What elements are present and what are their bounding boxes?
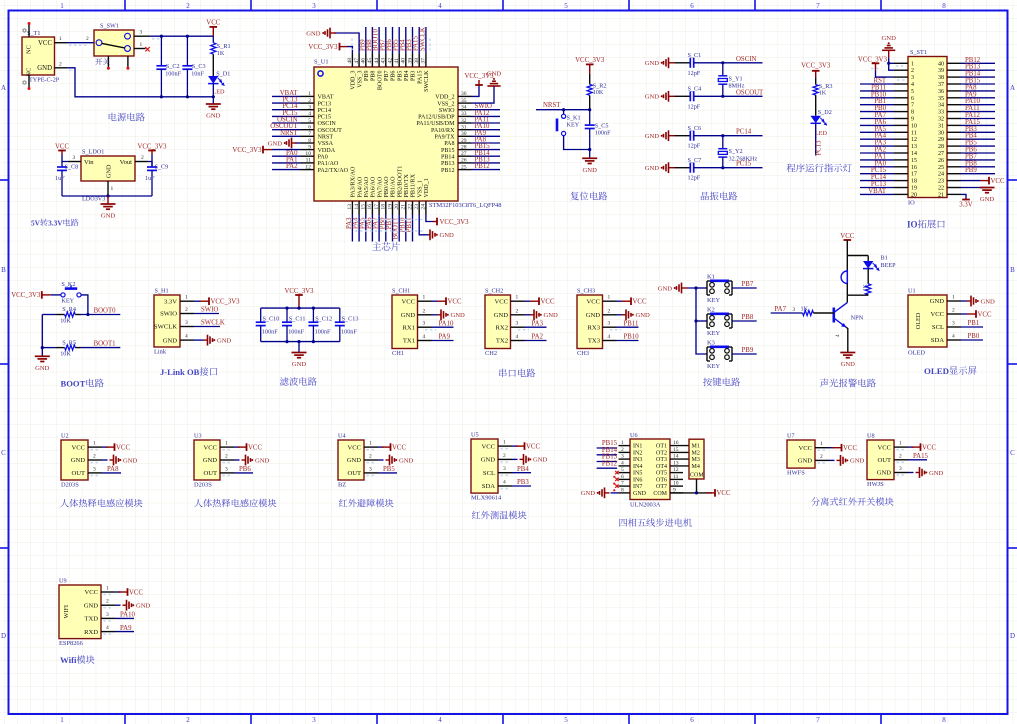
svg-text:7: 7 <box>911 103 914 109</box>
pin U3 3 <box>220 472 234 474</box>
svg-text:38: 38 <box>414 58 420 64</box>
svg-text:S_U1: S_U1 <box>314 59 329 66</box>
svg-text:GND: GND <box>798 458 813 465</box>
svg-text:VCC: VCC <box>401 298 415 305</box>
pin U9 1 <box>101 591 115 593</box>
ground LDO <box>107 196 109 204</box>
svg-text:SWIO: SWIO <box>201 307 218 314</box>
ground U5 <box>512 458 518 460</box>
wire ST1 pin 31 <box>961 124 995 126</box>
svg-text:1: 1 <box>60 716 64 724</box>
wire ST1 pin 34 <box>961 104 995 106</box>
wire U1 pin 22 <box>412 215 414 242</box>
svg-text:1: 1 <box>911 61 914 67</box>
wire ST1 pin 17 <box>860 173 894 175</box>
svg-text:VCC: VCC <box>206 20 220 27</box>
wire filter bottom rail <box>261 341 340 343</box>
svg-text:2: 2 <box>186 2 190 10</box>
svg-text:16: 16 <box>911 165 917 171</box>
svg-text:S_C12: S_C12 <box>315 316 332 323</box>
pin U8 2 <box>894 459 908 461</box>
svg-text:16: 16 <box>673 440 679 446</box>
svg-text:TYPE-C-2P: TYPE-C-2P <box>29 77 60 84</box>
svg-text:100nF: 100nF <box>165 71 181 78</box>
svg-text:VSS_2: VSS_2 <box>437 101 454 107</box>
pin H1 2 <box>180 313 194 315</box>
svg-text:D: D <box>1010 632 1015 640</box>
svg-text:PB6: PB6 <box>239 466 251 473</box>
svg-text:ULN2003A: ULN2003A <box>630 502 661 509</box>
svg-text:IN3: IN3 <box>633 457 642 463</box>
svg-text:2: 2 <box>86 36 89 42</box>
svg-text:PB7: PB7 <box>384 71 390 82</box>
wire ST1 pin 40 <box>961 62 995 64</box>
svg-text:43: 43 <box>381 58 387 64</box>
svg-text:2: 2 <box>225 454 228 460</box>
svg-text:OUT: OUT <box>347 470 361 477</box>
wire U1 pin 6 <box>272 129 301 131</box>
svg-text:1: 1 <box>59 36 62 42</box>
svg-text:U7: U7 <box>787 433 795 440</box>
LED alarm <box>867 256 869 262</box>
wire U5 PB3 <box>512 485 531 487</box>
svg-text:S_C9: S_C9 <box>155 164 169 171</box>
svg-text:VCC: VCC <box>877 444 891 451</box>
svg-text:TX2: TX2 <box>496 338 508 345</box>
svg-text:GND: GND <box>581 490 596 497</box>
svg-text:U6: U6 <box>630 432 638 439</box>
svg-text:VCC: VCC <box>448 299 462 306</box>
svg-text:GND: GND <box>487 71 502 78</box>
svg-text:C: C <box>1 449 6 457</box>
svg-text:GND: GND <box>123 457 138 464</box>
pin LDO 2 right <box>135 161 148 163</box>
wire U1 pin 15 <box>365 215 367 242</box>
power port VCC_3V3 LDO output <box>148 150 156 152</box>
power port VCC U3 <box>234 446 240 448</box>
wire K3 to net <box>732 353 757 355</box>
resistor alarm <box>867 269 869 284</box>
U1 right pin stubs and numbers <box>458 96 472 169</box>
svg-text:LED: LED <box>815 130 828 137</box>
svg-text:28: 28 <box>461 144 467 150</box>
wire U1 pin 11 <box>272 162 301 164</box>
SW1 contacts <box>96 40 102 46</box>
svg-text:OSCIN: OSCIN <box>318 121 337 127</box>
power port VCC_3V3 boot <box>41 291 43 299</box>
pin T1 bottom NC <box>28 75 30 88</box>
wire keys ground bus <box>688 288 708 354</box>
ground U4 <box>378 459 384 461</box>
svg-text:VCC: VCC <box>55 143 69 150</box>
svg-text:S_C7: S_C7 <box>688 157 702 164</box>
svg-text:GND: GND <box>841 361 856 368</box>
svg-text:PB11: PB11 <box>624 320 639 327</box>
ground U8 <box>908 472 914 474</box>
svg-text:KEY: KEY <box>61 298 74 305</box>
svg-text:Wifi: Wifi <box>60 655 77 665</box>
svg-text:SWIO: SWIO <box>439 108 455 114</box>
svg-text:41: 41 <box>394 58 400 64</box>
svg-text:PB0: PB0 <box>968 333 980 340</box>
pin U2 2 <box>88 459 102 461</box>
ground filter <box>292 352 307 354</box>
svg-text:+: + <box>841 273 844 278</box>
svg-text:VDD_3: VDD_3 <box>351 71 357 90</box>
svg-text:PB12: PB12 <box>602 460 618 467</box>
svg-text:VCC: VCC <box>38 40 52 47</box>
svg-text:GND: GND <box>255 457 270 464</box>
svg-text:VSS_3: VSS_3 <box>357 71 363 88</box>
wire OLED SCL <box>961 326 983 328</box>
ground boot <box>35 355 50 357</box>
svg-text:VCC: VCC <box>526 443 540 450</box>
label SW1 开关 <box>95 58 109 65</box>
wire ST1 pin 9 <box>860 118 894 120</box>
svg-text:GND: GND <box>544 312 559 319</box>
svg-text:SWCLK: SWCLK <box>424 70 430 92</box>
svg-text:4: 4 <box>516 334 519 340</box>
svg-text:S_CH2: S_CH2 <box>485 288 503 295</box>
svg-text:100nF: 100nF <box>341 328 357 335</box>
svg-text:RX2: RX2 <box>496 324 508 331</box>
power port VCC OLED <box>961 313 967 315</box>
svg-text:PB5: PB5 <box>397 71 403 82</box>
U1 pin names <box>318 70 456 198</box>
svg-text:SWIO: SWIO <box>160 311 177 318</box>
svg-text:VCC: VCC <box>203 444 217 451</box>
pin H1 3 <box>180 326 194 328</box>
wire U9 PA10 <box>115 617 134 619</box>
svg-text:PA3: PA3 <box>532 320 544 327</box>
svg-text:IN5: IN5 <box>633 471 642 477</box>
svg-text:S_R5: S_R5 <box>62 339 76 346</box>
svg-text:KEY: KEY <box>707 297 721 304</box>
wire U1 pin 34 <box>472 109 501 111</box>
svg-text:19: 19 <box>911 186 917 192</box>
wire U1 pin 30 <box>472 135 501 137</box>
U6 pin names <box>633 444 668 497</box>
svg-text:40: 40 <box>938 61 944 67</box>
pin U4 1 <box>364 446 378 448</box>
svg-text:OSCOUT: OSCOUT <box>318 128 343 134</box>
svg-text:34: 34 <box>938 103 944 109</box>
wire ST1 pin 18 <box>860 180 894 182</box>
wire U1 pin 3 <box>272 109 301 111</box>
key S_K1 <box>562 114 566 118</box>
resistor S_R2 10K <box>589 74 591 84</box>
wire ST1 pin 7 <box>860 104 894 106</box>
pin SW1 1 right NC <box>134 48 146 50</box>
wire U1 pin 17 <box>378 215 380 242</box>
svg-text:36: 36 <box>938 89 944 95</box>
svg-text:PA6/AO: PA6/AO <box>371 176 377 197</box>
svg-text:S_D2: S_D2 <box>818 109 832 116</box>
svg-text:2: 2 <box>308 98 311 104</box>
svg-text:KEY: KEY <box>707 363 721 370</box>
svg-text:VCC_3V3: VCC_3V3 <box>858 56 888 63</box>
svg-text:PA5/AO: PA5/AO <box>364 176 370 197</box>
wire ST1 pin 28 <box>961 145 995 147</box>
svg-text:PA15: PA15 <box>913 453 928 460</box>
svg-text:2: 2 <box>516 308 519 314</box>
wire U1 pin 2 <box>272 102 301 104</box>
key K3 <box>706 347 708 361</box>
svg-text:10K: 10K <box>60 317 71 324</box>
svg-text:PC15: PC15 <box>318 115 332 121</box>
svg-text:VCC_3V3: VCC_3V3 <box>284 288 314 295</box>
svg-text:PB13: PB13 <box>441 161 455 167</box>
MCU S_U1 STM32F103C8T6 <box>314 67 458 201</box>
svg-text:LED: LED <box>213 89 226 96</box>
svg-text:K2: K2 <box>707 307 715 314</box>
svg-text:PA9: PA9 <box>439 334 451 341</box>
svg-text:46: 46 <box>361 58 367 64</box>
wire BOOT0 net <box>81 314 121 316</box>
wire U9 PA9 <box>115 631 134 633</box>
svg-text:PB10: PB10 <box>624 334 640 341</box>
power port VCC_3V3 U1 VDD_2 <box>475 84 483 86</box>
wire ST1 pin 4 <box>860 83 894 85</box>
capacitor S_C6 12pF <box>675 135 691 137</box>
wire ST1 pin 35 <box>961 97 995 99</box>
wire U1 pin 25 <box>472 169 501 171</box>
wire ST1 pin 24 <box>961 173 995 175</box>
svg-text:1: 1 <box>423 295 426 301</box>
pale marks chip <box>351 39 353 51</box>
svg-text:S_C6: S_C6 <box>688 125 702 132</box>
wire VCC to Vin and C8 <box>62 155 68 162</box>
svg-text:M4: M4 <box>692 464 700 470</box>
svg-text:IN7: IN7 <box>633 484 642 490</box>
svg-text:S_C8: S_C8 <box>65 164 79 171</box>
wire VCC rail top <box>150 35 214 37</box>
svg-text:HWFS: HWFS <box>787 470 805 477</box>
svg-text:39: 39 <box>407 58 413 64</box>
power port VCC_3V3 U1 VDDA <box>262 146 264 154</box>
svg-text:RX1: RX1 <box>403 324 415 331</box>
power port VCC U2 <box>102 446 108 448</box>
title 红外测温模块 <box>472 511 527 519</box>
svg-text:PA7: PA7 <box>775 306 787 313</box>
svg-text:3: 3 <box>312 2 316 10</box>
svg-text:1: 1 <box>369 441 372 447</box>
power port VCC_3V3 U1 VDD_1 <box>436 218 438 226</box>
svg-text:4: 4 <box>185 334 188 340</box>
svg-text:13: 13 <box>673 460 679 466</box>
svg-text:8: 8 <box>308 138 311 144</box>
wire ST1 pin 36 <box>961 90 995 92</box>
pin U9 2 <box>101 604 115 606</box>
wire U4 PB5 <box>378 472 397 474</box>
svg-text:30: 30 <box>461 131 467 137</box>
svg-text:PB14: PB14 <box>441 154 455 160</box>
wire S_CH1 PA10 <box>432 326 454 328</box>
svg-text:31: 31 <box>461 125 467 131</box>
wire U1 pin 4 <box>272 115 301 117</box>
svg-text:A: A <box>1 84 6 92</box>
svg-text:1: 1 <box>185 295 188 301</box>
svg-text:3: 3 <box>308 105 311 111</box>
wire D2 to net <box>815 123 817 155</box>
wire U1 pin 20 <box>398 215 400 242</box>
svg-text:GND: GND <box>347 457 362 464</box>
svg-text:OLED: OLED <box>915 312 922 329</box>
wire NRST node <box>536 109 590 111</box>
ground S_C1 <box>661 62 663 64</box>
svg-text:6: 6 <box>690 716 694 724</box>
svg-text:20: 20 <box>911 192 917 198</box>
power port VCC alarm <box>844 239 852 241</box>
title 主芯片 <box>372 242 399 251</box>
svg-text:GND: GND <box>481 457 496 464</box>
wire alarm bottom node <box>847 294 868 296</box>
svg-text:11: 11 <box>911 130 917 136</box>
svg-text:A: A <box>1010 84 1015 92</box>
wire U6 IN1 <box>597 447 618 449</box>
svg-text:100nF: 100nF <box>315 328 331 335</box>
svg-text:5: 5 <box>621 467 624 473</box>
wire U6 IN2 <box>597 454 618 456</box>
svg-text:PB9: PB9 <box>364 71 370 82</box>
title 声光报警电路 <box>820 379 876 388</box>
svg-text:19: 19 <box>387 204 393 210</box>
svg-text:VCC: VCC <box>798 445 812 452</box>
svg-text:4: 4 <box>621 460 624 466</box>
pin SW1 3 right <box>134 35 150 37</box>
svg-text:2: 2 <box>911 68 914 74</box>
svg-text:1: 1 <box>308 91 311 97</box>
pin S_CH2 2 <box>511 314 525 316</box>
svg-text:1: 1 <box>503 440 506 446</box>
header S_CH2 <box>485 295 511 349</box>
svg-text:GND: GND <box>494 312 509 319</box>
svg-text:5: 5 <box>564 716 568 724</box>
svg-text:IN6: IN6 <box>633 478 642 484</box>
wire ST1 pin 16 <box>860 166 894 168</box>
pale marks io <box>896 65 905 67</box>
svg-text:3: 3 <box>312 716 316 724</box>
svg-text:VCC: VCC <box>930 311 944 318</box>
key K2 <box>706 314 708 328</box>
svg-text:VCC: VCC <box>978 311 992 318</box>
switch S_SW1 <box>94 30 134 56</box>
title 人体热释电感应模块 U3 <box>194 499 276 508</box>
svg-text:GND: GND <box>203 457 218 464</box>
svg-text:BOOT0: BOOT0 <box>377 71 383 91</box>
svg-text:KEY: KEY <box>567 122 580 129</box>
svg-text:20: 20 <box>394 204 400 210</box>
svg-text:24: 24 <box>421 204 427 210</box>
svg-text:VCC: VCC <box>392 444 406 451</box>
svg-text:PB3: PB3 <box>411 71 417 82</box>
wire K2 to BOOT0 <box>81 295 88 315</box>
wire U1 pin 28 <box>472 149 501 151</box>
svg-text:S_ST1: S_ST1 <box>910 49 927 56</box>
svg-text:13: 13 <box>911 144 917 150</box>
svg-text:SCL: SCL <box>932 324 944 331</box>
svg-text:30: 30 <box>938 130 944 136</box>
svg-text:BOOT0: BOOT0 <box>94 307 117 314</box>
wire U1 pin 16 <box>371 215 373 242</box>
capacitor S_C13 100nF <box>339 308 341 322</box>
svg-text:22: 22 <box>407 204 413 210</box>
svg-text:27: 27 <box>461 151 467 157</box>
svg-text:VCC: VCC <box>843 445 857 452</box>
pin U2 3 <box>88 472 102 474</box>
wire K2 to net <box>732 320 757 322</box>
crystal S_Y2 32.768KHz <box>722 136 724 149</box>
svg-text:32.768KHz: 32.768KHz <box>729 156 758 163</box>
svg-text:PA10: PA10 <box>120 612 135 619</box>
svg-text:GND: GND <box>136 603 151 610</box>
wire U1 pin 31 <box>472 129 501 131</box>
junction dots ground rail <box>160 95 163 98</box>
svg-text:VCC: VCC <box>840 233 854 240</box>
svg-text:S_C4: S_C4 <box>688 86 702 93</box>
transistor Q1 NPN <box>832 308 835 323</box>
svg-text:15: 15 <box>911 158 917 164</box>
wire U3 PB6 <box>234 472 253 474</box>
wire ST1 pin 37 <box>961 83 995 85</box>
svg-text:13: 13 <box>347 204 353 210</box>
wire U2 PA8 <box>102 472 121 474</box>
svg-text:3: 3 <box>369 466 372 472</box>
power port VCC U9 <box>115 591 121 593</box>
svg-text:3: 3 <box>952 321 955 327</box>
svg-text:45: 45 <box>367 58 373 64</box>
pin S_CH2 1 <box>511 300 525 302</box>
wire U1 pin 46 <box>365 27 367 54</box>
svg-text:VSS_1: VSS_1 <box>417 180 423 197</box>
svg-text:2: 2 <box>93 454 96 460</box>
module U8 HWJS <box>867 440 894 480</box>
svg-text:GND: GND <box>106 164 113 178</box>
capacitor S_C5 100nF <box>589 110 591 125</box>
wire U1 pin 29 <box>472 142 501 144</box>
svg-text:1: 1 <box>60 2 64 10</box>
svg-text:J-Link OB: J-Link OB <box>160 367 200 377</box>
svg-text:COM: COM <box>690 473 704 479</box>
svg-text:VCC: VCC <box>347 444 361 451</box>
svg-text:PC13: PC13 <box>815 140 822 156</box>
power port VCC_3V3 H1 <box>194 300 200 302</box>
wire S_C6 to label <box>723 135 763 137</box>
svg-text:3: 3 <box>423 321 426 327</box>
svg-text:37: 37 <box>938 82 944 88</box>
svg-text:3.3V: 3.3V <box>164 298 177 305</box>
wire ST1 pin 11 <box>860 131 894 133</box>
svg-text:1: 1 <box>140 42 143 48</box>
resistor S_R5 10K <box>42 347 55 349</box>
wire to ground reset <box>588 148 591 151</box>
pin OLED 3 <box>947 326 961 328</box>
svg-text:IN1: IN1 <box>633 444 642 450</box>
wire U1 pin 43 <box>385 27 387 54</box>
wire D1 to ground <box>212 84 214 104</box>
header S_H1 J-Link <box>154 295 180 347</box>
pin U5 4 <box>498 485 512 487</box>
svg-text:GND: GND <box>850 458 865 465</box>
svg-text:M3: M3 <box>692 457 700 463</box>
wire OLED SDA <box>961 339 983 341</box>
svg-text:7: 7 <box>621 481 624 487</box>
ground U3 <box>234 459 240 461</box>
power port VCC U7 <box>829 447 835 449</box>
wire ST1 pin 12 <box>860 138 894 140</box>
svg-text:3: 3 <box>225 466 228 472</box>
title 程序运行指示灯 <box>787 164 852 173</box>
